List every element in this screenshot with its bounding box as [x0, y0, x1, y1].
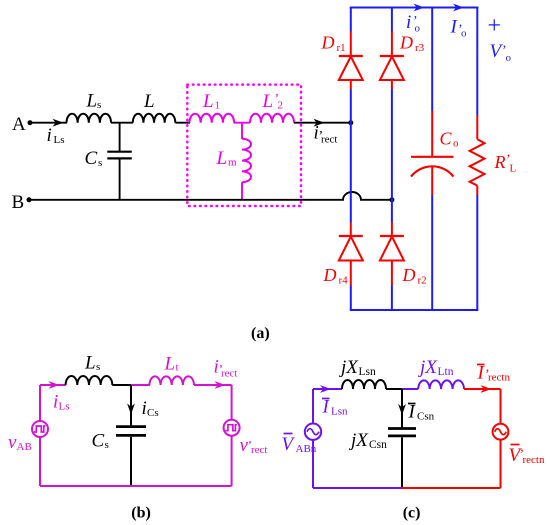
inductor Lt	[149, 376, 194, 385]
bottom rail blue	[350, 309, 479, 311]
source V'rectn	[493, 389, 509, 488]
svg-text:Lsn: Lsn	[331, 406, 348, 418]
node B	[12, 192, 32, 213]
svg-text:o: o	[461, 28, 467, 40]
svg-text:R: R	[494, 152, 506, 172]
svg-text:jX: jX	[417, 357, 438, 378]
svg-text:Ls: Ls	[54, 134, 65, 146]
capacitor branch ICsn arrow	[398, 389, 406, 427]
svg-text:D: D	[399, 33, 413, 53]
svg-text:1: 1	[215, 100, 221, 112]
label vAB	[8, 432, 32, 453]
label Cs	[85, 148, 103, 169]
diode Dr1	[339, 32, 363, 90]
svg-text:rect: rect	[221, 368, 237, 380]
svg-text:s: s	[98, 157, 102, 169]
svg-text:D: D	[321, 33, 335, 53]
capacitor jXCsn	[388, 429, 416, 489]
diode Dr4	[339, 223, 363, 286]
label v'rect	[240, 435, 268, 456]
diode Dr2	[380, 223, 404, 286]
svg-text:Ls: Ls	[59, 400, 70, 412]
svg-text:B: B	[12, 192, 25, 213]
label V'o	[490, 41, 512, 64]
svg-text:s: s	[105, 439, 109, 451]
label jXLsn	[338, 357, 376, 378]
svg-text:o: o	[506, 52, 512, 64]
svg-text:r1: r1	[337, 42, 346, 54]
node junction i'rect / Dr1 leg	[348, 120, 353, 125]
leg 3 wires (Co)	[431, 7, 433, 311]
svg-text:m: m	[228, 157, 237, 169]
label Dr3	[399, 33, 425, 54]
svg-text:o: o	[453, 138, 459, 150]
wire top left with arrow ILsn	[313, 385, 342, 393]
label L1	[202, 91, 220, 112]
svg-text:A: A	[12, 114, 26, 135]
label jXLtn	[417, 357, 454, 378]
label I'rectn	[477, 363, 511, 384]
svg-text:L: L	[510, 163, 517, 175]
svg-text:L: L	[202, 91, 214, 112]
svg-text:r3: r3	[415, 42, 425, 54]
capacitor branch iCs arrow	[127, 385, 135, 426]
label ICsn	[408, 402, 435, 423]
svg-text:i: i	[47, 125, 52, 146]
inductor Ls	[67, 114, 112, 123]
svg-text:D: D	[402, 265, 416, 285]
wire junction to jXLtn	[402, 388, 418, 390]
capacitor Co	[411, 111, 454, 195]
label Dr1	[321, 33, 346, 54]
svg-text:ABn: ABn	[296, 443, 317, 455]
svg-text:t: t	[176, 362, 179, 374]
inductor Ls (b)	[66, 376, 113, 385]
svg-text:rectn: rectn	[488, 372, 510, 384]
svg-text:C: C	[92, 430, 105, 451]
inductor jXLtn	[418, 380, 464, 389]
svg-text:rect: rect	[321, 134, 337, 146]
svg-text:L: L	[164, 353, 176, 374]
label Lt	[164, 353, 179, 374]
label Ls (b)	[84, 353, 100, 374]
label Cs (b)	[92, 430, 109, 451]
label ILsn	[322, 397, 349, 418]
wire A to Ls with arrow iLs	[30, 119, 67, 127]
label i'rect (b)	[214, 357, 238, 380]
svg-text:i: i	[142, 398, 147, 419]
wire L to box	[175, 122, 190, 124]
source VABn	[305, 389, 321, 488]
svg-text:jX: jX	[338, 357, 359, 378]
arrow I'o on top rail	[453, 4, 464, 12]
label V'rectn	[509, 445, 545, 467]
svg-text:L: L	[143, 91, 155, 112]
label i'rect	[314, 123, 338, 146]
svg-text:jX: jX	[348, 430, 369, 451]
inductor Lm	[242, 123, 251, 200]
svg-text:AB: AB	[17, 441, 32, 453]
svg-text:s: s	[97, 99, 101, 111]
inductor L1	[190, 114, 235, 123]
source vAB	[32, 385, 48, 486]
svg-text:L: L	[84, 353, 96, 374]
node junction B wire / Dr2 leg	[389, 197, 394, 202]
label Co	[440, 129, 460, 150]
leg 1 wires (Dr1/Dr4)	[350, 7, 352, 311]
label Dr4	[323, 265, 349, 286]
inductor jXLsn	[342, 380, 386, 389]
svg-text:L: L	[216, 148, 228, 169]
label Dr2	[402, 265, 427, 286]
svg-text:(a): (a)	[251, 325, 270, 342]
svg-text:Csn: Csn	[369, 439, 387, 451]
svg-text:rectn: rectn	[523, 454, 545, 466]
svg-text:i: i	[53, 392, 58, 413]
svg-text:s: s	[96, 361, 100, 373]
wire L1 to L'2	[234, 122, 250, 124]
label iLs	[47, 125, 65, 146]
diode Dr3	[380, 32, 404, 90]
leg 2 wires (Dr3/Dr2)	[391, 7, 393, 311]
dotted transformer box	[187, 85, 301, 206]
svg-text:Csn: Csn	[417, 411, 435, 423]
wire top left with arrow iLs	[40, 381, 66, 389]
inductor L	[133, 114, 176, 123]
svg-text:(c): (c)	[403, 504, 421, 521]
svg-text:r4: r4	[339, 274, 349, 286]
svg-text:D: D	[323, 265, 337, 285]
label L'2	[262, 91, 284, 112]
node A	[12, 114, 33, 135]
wire L'2 to rectifier with arrow i'rect	[294, 119, 351, 127]
bottom wire (b)	[40, 485, 232, 487]
svg-text:C: C	[440, 129, 453, 149]
leg 4 wires (R'L)	[476, 7, 478, 311]
svg-text:Lsn: Lsn	[359, 366, 377, 378]
wire Lt to v'rect with arrow i'rect	[194, 381, 232, 389]
svg-text:rect: rect	[251, 444, 267, 456]
svg-text:2: 2	[278, 100, 284, 112]
label Lm	[216, 148, 238, 169]
bottom wire left violet	[313, 487, 402, 489]
wire Ls to junction	[112, 384, 132, 386]
bottom wire right red	[402, 487, 501, 489]
svg-text:Ltn: Ltn	[438, 366, 454, 378]
svg-text:i: i	[406, 12, 411, 33]
source v'rect	[224, 385, 240, 486]
inductor L'2	[250, 114, 294, 123]
svg-text:L: L	[86, 91, 98, 112]
wire jXLtn to corner with arrow I'rectn	[464, 385, 501, 393]
capacitor Cs	[107, 123, 132, 200]
top rail blue	[350, 7, 479, 9]
wire Ls to L	[111, 122, 133, 124]
svg-text:(b): (b)	[131, 504, 151, 521]
svg-text:r2: r2	[418, 274, 427, 286]
label iCs	[142, 398, 159, 419]
svg-text:C: C	[85, 148, 98, 169]
svg-text:Cs: Cs	[147, 407, 159, 419]
wire jXLsn to junction	[386, 388, 403, 390]
label I'o	[450, 17, 468, 40]
label VABn	[282, 434, 317, 456]
label iLs	[53, 392, 70, 413]
label Ls	[86, 91, 102, 112]
resistor R'L	[470, 115, 485, 195]
arrow i'o on top rail	[414, 4, 425, 12]
label R'L	[494, 152, 517, 175]
svg-text:o: o	[415, 23, 421, 35]
svg-text:L: L	[262, 91, 274, 112]
svg-text:+: +	[488, 13, 502, 39]
wire junction to Lt	[131, 384, 150, 386]
capacitor Cs (b)	[116, 427, 146, 486]
label jXCsn	[348, 430, 387, 451]
wire B row with hop over Dr1 leg	[29, 192, 392, 200]
label i'o	[406, 12, 421, 35]
